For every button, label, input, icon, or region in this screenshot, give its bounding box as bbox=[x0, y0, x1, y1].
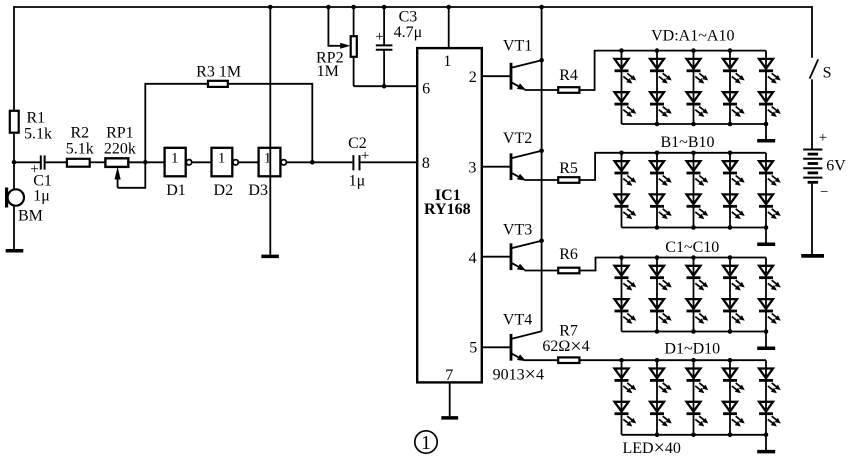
junction array D top bus col 4 bbox=[728, 358, 733, 363]
junction array D top bus col 1 bbox=[619, 358, 624, 363]
wire array A bottom bus bbox=[622, 123, 767, 125]
svg-text:1μ: 1μ bbox=[349, 173, 366, 190]
wire IC pin to VT3 base bbox=[482, 256, 511, 258]
junction array B top bus col 2 bbox=[655, 151, 660, 156]
svg-text:VT1: VT1 bbox=[503, 37, 532, 54]
node B (D3 output / feedback) bbox=[310, 160, 315, 165]
wire R7 to array D top bus bbox=[580, 359, 766, 361]
junction C3 bottom on pin 6 wire bbox=[382, 84, 387, 89]
wire array A column 2 bbox=[656, 51, 658, 124]
junction top rail at RP2 wiper bbox=[326, 5, 331, 10]
wire array C column 1 bbox=[621, 258, 623, 332]
LED A8 bbox=[723, 92, 744, 116]
svg-text:C1~C10: C1~C10 bbox=[665, 239, 719, 256]
resistor R1 5.1k bbox=[10, 111, 19, 133]
wire array D column 3 bbox=[693, 360, 695, 435]
wire array B column 2 bbox=[656, 153, 658, 228]
wire R2 to RP1 bbox=[90, 161, 105, 163]
svg-text:VD:A1~A10: VD:A1~A10 bbox=[651, 28, 734, 45]
wire D2 to D3 bbox=[238, 161, 258, 163]
wiper arrow of RP1 bbox=[115, 168, 120, 179]
svg-text:9013×4: 9013×4 bbox=[493, 364, 544, 386]
wire IC pin to VT1 base bbox=[482, 75, 511, 77]
wire rail corner to switch S bbox=[811, 6, 813, 58]
LED C7 bbox=[723, 266, 744, 290]
junction array B bottom bus col 4 bbox=[728, 225, 733, 230]
svg-text:8: 8 bbox=[422, 155, 430, 172]
svg-text:6: 6 bbox=[422, 80, 430, 97]
wire rail to RP2 bbox=[353, 6, 355, 35]
ground of array C bbox=[765, 332, 767, 347]
ground of array B bbox=[765, 228, 767, 243]
wire IC pin 7 to ground bbox=[449, 383, 451, 417]
potentiometer RP2 1M bbox=[351, 36, 357, 57]
junction array A top bus col 3 bbox=[691, 48, 696, 53]
svg-text:S: S bbox=[823, 64, 832, 81]
node A (D1 input / feedback) bbox=[143, 160, 148, 165]
LED A4 bbox=[650, 92, 671, 116]
junction VT3 collector on supply rail bbox=[539, 238, 544, 243]
junction array A bottom bus col 4 bbox=[728, 122, 733, 127]
wire array B column 4 bbox=[729, 153, 731, 228]
ground under D3 supply line bbox=[261, 255, 279, 259]
wire array D column 5 bbox=[765, 360, 767, 435]
wire R6 to array C top bus bbox=[580, 258, 766, 271]
wire rail to C3 bbox=[383, 6, 385, 45]
svg-text:R6: R6 bbox=[559, 246, 578, 263]
LED B1 bbox=[615, 161, 636, 185]
wire R3 down to node B bbox=[229, 84, 313, 163]
svg-text:VT4: VT4 bbox=[503, 312, 532, 329]
svg-text:R3 1M: R3 1M bbox=[196, 64, 241, 81]
LED D8 bbox=[723, 402, 744, 426]
wire RP1 wiper to node A bbox=[118, 162, 146, 188]
junction array D bottom bus col 2 bbox=[655, 433, 660, 438]
svg-text:220k: 220k bbox=[104, 140, 136, 157]
resistor R3 1M bbox=[208, 81, 228, 87]
svg-text:RY168: RY168 bbox=[424, 201, 471, 218]
LED A5 bbox=[687, 59, 708, 83]
wire array B column 1 bbox=[621, 153, 623, 228]
resistor R6 bbox=[558, 268, 579, 274]
LED C2 bbox=[615, 299, 636, 323]
svg-text:1: 1 bbox=[218, 151, 226, 167]
LED D1 bbox=[615, 369, 636, 393]
wire array A column 1 bbox=[621, 51, 623, 124]
transistor VT2 9013 bbox=[510, 153, 513, 180]
junction VT1 collector on supply rail bbox=[539, 58, 544, 63]
svg-text:VT3: VT3 bbox=[503, 222, 532, 239]
svg-text:62Ω×4: 62Ω×4 bbox=[542, 335, 589, 357]
inverter D1 bbox=[165, 148, 186, 177]
svg-text:LED×40: LED×40 bbox=[623, 437, 681, 458]
figure number circled 1 bbox=[415, 431, 437, 453]
wire D1 to D2 bbox=[192, 161, 212, 163]
inverter D2 bbox=[212, 148, 233, 177]
capacitor C3 4.7u (electrolytic) bbox=[376, 44, 393, 46]
LED A3 bbox=[650, 59, 671, 83]
svg-text:+: + bbox=[375, 29, 383, 45]
LED B9 bbox=[759, 161, 780, 185]
resistor R4 bbox=[558, 87, 579, 93]
svg-text:6V: 6V bbox=[826, 158, 846, 175]
junction array B top bus col 1 bbox=[619, 151, 624, 156]
LED C5 bbox=[687, 266, 708, 290]
svg-text:C3: C3 bbox=[399, 8, 418, 25]
LED C9 bbox=[759, 266, 780, 290]
wire C3 to pin 6 wire bbox=[383, 50, 385, 86]
junction array C bottom bus col 2 bbox=[655, 329, 660, 334]
svg-text:5.1k: 5.1k bbox=[66, 140, 94, 157]
junction array B bottom bus col 5 bbox=[764, 225, 769, 230]
junction array A top bus col 2 bbox=[655, 48, 660, 53]
LED D2 bbox=[615, 402, 636, 426]
svg-text:BM: BM bbox=[18, 208, 43, 225]
junction array A bottom bus col 3 bbox=[691, 122, 696, 127]
LED A6 bbox=[687, 92, 708, 116]
junction array A bottom bus col 2 bbox=[655, 122, 660, 127]
wire node to C1 bbox=[14, 161, 40, 163]
LED C1 bbox=[615, 266, 636, 290]
wire switch to battery bbox=[811, 79, 813, 149]
ground of array D bbox=[765, 435, 767, 450]
wire array C column 3 bbox=[693, 258, 695, 332]
wire array D bottom bus bbox=[622, 434, 767, 436]
wire array B bottom bus bbox=[622, 227, 767, 229]
junction array B top bus col 3 bbox=[691, 151, 696, 156]
wire rail to IC pin 1 bbox=[448, 6, 450, 48]
junction VT2 collector on supply rail bbox=[539, 148, 544, 153]
resistor R5 bbox=[558, 177, 579, 183]
svg-text:1μ: 1μ bbox=[33, 188, 50, 205]
junction array D bottom bus col 3 bbox=[691, 433, 696, 438]
wire node A to D1 bbox=[145, 161, 164, 163]
svg-text:C2: C2 bbox=[348, 135, 367, 152]
svg-text:3: 3 bbox=[468, 160, 476, 177]
LED D7 bbox=[723, 369, 744, 393]
junction input node bbox=[12, 160, 17, 165]
inverter D3 bbox=[259, 148, 281, 177]
junction array C bottom bus col 4 bbox=[728, 329, 733, 334]
svg-text:R4: R4 bbox=[559, 67, 578, 84]
svg-text:−: − bbox=[820, 184, 828, 200]
LED B5 bbox=[687, 161, 708, 185]
ground under IC pin 7 bbox=[441, 416, 458, 420]
LED C3 bbox=[650, 266, 671, 290]
junction array A bottom bus col 5 bbox=[764, 122, 769, 127]
wire node to microphone bbox=[13, 162, 15, 189]
junction top rail at C3 bbox=[382, 5, 387, 10]
wire array A column 5 bbox=[765, 51, 767, 124]
LED B4 bbox=[650, 194, 671, 218]
LED C6 bbox=[687, 299, 708, 323]
svg-text:1: 1 bbox=[264, 151, 272, 167]
LED D3 bbox=[650, 369, 671, 393]
svg-text:D1~D10: D1~D10 bbox=[664, 341, 720, 358]
wire array D column 4 bbox=[729, 360, 731, 435]
transistor VT4 9013 bbox=[510, 334, 513, 361]
wire RP1 to node A bbox=[128, 161, 145, 163]
wire R5 to array B top bus bbox=[580, 153, 766, 180]
junction array D top bus col 2 bbox=[655, 358, 660, 363]
ground under microphone bbox=[6, 249, 24, 253]
junction array A top bus col 4 bbox=[728, 48, 733, 53]
svg-text:5: 5 bbox=[469, 340, 477, 357]
LED B10 bbox=[759, 194, 780, 218]
LED D5 bbox=[687, 369, 708, 393]
transistor VT3 9013 bbox=[510, 243, 513, 270]
wire microphone to ground bbox=[13, 206, 15, 249]
junction array C bottom bus col 5 bbox=[764, 329, 769, 334]
wire C1 to R2 bbox=[46, 161, 67, 163]
junction array C top bus col 2 bbox=[655, 255, 660, 260]
LED A9 bbox=[759, 59, 780, 83]
wire supply line through D3 to ground bbox=[269, 6, 271, 255]
LED C4 bbox=[650, 299, 671, 323]
LED A1 bbox=[615, 59, 636, 83]
LED B7 bbox=[723, 161, 744, 185]
wire VT2 emitter to R5 bbox=[525, 179, 558, 181]
wire RP2 to pin 6 line bbox=[353, 58, 355, 86]
LED A10 bbox=[759, 92, 780, 116]
junction array B top bus col 4 bbox=[728, 151, 733, 156]
svg-text:R1: R1 bbox=[27, 110, 46, 127]
wire IC pin to VT4 base bbox=[482, 346, 511, 348]
svg-text:+: + bbox=[819, 130, 827, 146]
wire D3 output to C2 bbox=[286, 161, 352, 163]
LED B6 bbox=[687, 194, 708, 218]
svg-text:1: 1 bbox=[171, 151, 179, 167]
junction array C top bus col 4 bbox=[728, 255, 733, 260]
potentiometer RP1 220k bbox=[105, 158, 128, 167]
junction array C top bus col 1 bbox=[619, 255, 624, 260]
svg-text:1: 1 bbox=[443, 53, 451, 70]
LED B8 bbox=[723, 194, 744, 218]
ground under battery bbox=[801, 254, 824, 258]
svg-text:R5: R5 bbox=[559, 160, 578, 177]
wire array D column 2 bbox=[656, 360, 658, 435]
svg-text:1M: 1M bbox=[317, 63, 339, 80]
svg-text:VT2: VT2 bbox=[503, 130, 532, 147]
svg-text:1: 1 bbox=[421, 432, 431, 454]
wire array B column 5 bbox=[765, 153, 767, 228]
junction array C top bus col 3 bbox=[691, 255, 696, 260]
junction array D top bus col 3 bbox=[691, 358, 696, 363]
wire VT4 emitter to R7 bbox=[525, 359, 558, 361]
wire battery to ground bbox=[811, 182, 813, 254]
wire left supply drop to R1 bbox=[13, 6, 15, 110]
wire array C column 2 bbox=[656, 258, 658, 332]
wire array A column 3 bbox=[693, 51, 695, 124]
junction top rail at collector rail bbox=[539, 5, 544, 10]
battery GB 6V bbox=[803, 149, 822, 151]
wire array C bottom bus bbox=[622, 331, 767, 333]
wire VT1 emitter to R4 bbox=[525, 89, 558, 91]
microphone BM bbox=[8, 189, 24, 205]
junction array A top bus col 1 bbox=[619, 48, 624, 53]
capacitor C1 1u (electrolytic) bbox=[40, 155, 42, 169]
wire collector supply rail bbox=[541, 6, 543, 331]
wiper arrow of RP2 bbox=[341, 43, 350, 48]
wire R1 to input node bbox=[13, 134, 15, 162]
switch S bbox=[810, 59, 819, 78]
ground of array A bbox=[765, 124, 767, 139]
svg-text:4: 4 bbox=[469, 250, 477, 267]
LED C10 bbox=[759, 299, 780, 323]
svg-text:RP1: RP1 bbox=[106, 125, 134, 142]
LED D6 bbox=[687, 402, 708, 426]
LED D10 bbox=[759, 402, 780, 426]
wire C2 to IC pin 8 bbox=[361, 161, 417, 163]
wire array C column 5 bbox=[765, 258, 767, 332]
wire VT3 emitter to R6 bbox=[525, 270, 558, 272]
junction array D bottom bus col 4 bbox=[728, 433, 733, 438]
LED D9 bbox=[759, 369, 780, 393]
wire RP2/C3 to IC pin 6 bbox=[354, 85, 417, 87]
resistor R7 bbox=[558, 357, 579, 363]
wire array B column 3 bbox=[693, 153, 695, 228]
LED A2 bbox=[615, 92, 636, 116]
IC U1 IC1 RY168 bbox=[417, 48, 482, 382]
svg-text:4.7μ: 4.7μ bbox=[394, 24, 423, 41]
wire array D column 1 bbox=[621, 360, 623, 435]
wire rail to RP2 wiper arrow bbox=[328, 7, 341, 46]
wire top supply rail bbox=[14, 6, 812, 8]
wire array C column 4 bbox=[729, 258, 731, 332]
svg-text:D2: D2 bbox=[214, 182, 234, 199]
wire R4 to array A top bus bbox=[580, 51, 766, 90]
junction array D bottom bus col 5 bbox=[764, 433, 769, 438]
svg-text:5.1k: 5.1k bbox=[24, 126, 52, 143]
svg-text:D3: D3 bbox=[248, 182, 268, 199]
capacitor C2 1u (electrolytic) bbox=[352, 155, 354, 170]
svg-text:7: 7 bbox=[445, 367, 453, 384]
junction array B bottom bus col 2 bbox=[655, 225, 660, 230]
svg-text:2: 2 bbox=[469, 69, 477, 86]
junction top rail at D3 supply line bbox=[268, 5, 273, 10]
junction top rail at IC pin 1 bbox=[446, 5, 451, 10]
junction top rail at RP2 bbox=[351, 5, 356, 10]
transistor VT1 9013 bbox=[510, 63, 513, 90]
wire node A up to R3 bbox=[145, 84, 207, 163]
junction array B bottom bus col 3 bbox=[691, 225, 696, 230]
svg-text:B1~B10: B1~B10 bbox=[661, 134, 715, 151]
svg-text:D1: D1 bbox=[166, 182, 186, 199]
LED B3 bbox=[650, 161, 671, 185]
wire array A column 4 bbox=[729, 51, 731, 124]
junction array C bottom bus col 3 bbox=[691, 329, 696, 334]
resistor R2 5.1k bbox=[67, 159, 90, 167]
LED A7 bbox=[723, 59, 744, 83]
LED C8 bbox=[723, 299, 744, 323]
LED B2 bbox=[615, 194, 636, 218]
svg-text:R2: R2 bbox=[70, 125, 89, 142]
wire IC pin to VT2 base bbox=[482, 166, 511, 168]
LED D4 bbox=[650, 402, 671, 426]
